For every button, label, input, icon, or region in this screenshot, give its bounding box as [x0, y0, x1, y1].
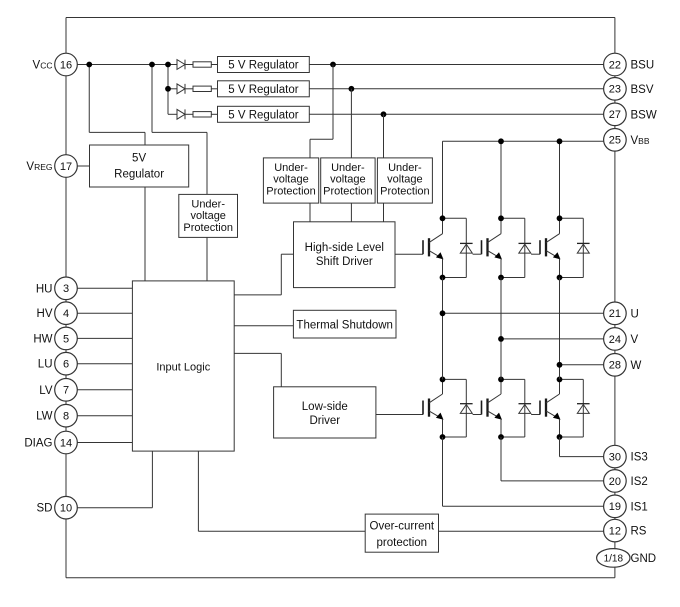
svg-text:Protection: Protection [323, 186, 373, 198]
svg-text:6: 6 [63, 359, 69, 371]
svg-text:IS2: IS2 [631, 476, 648, 488]
svg-text:Under-: Under- [191, 198, 225, 210]
svg-text:W: W [631, 360, 642, 372]
svg-text:Protection: Protection [380, 186, 430, 198]
svg-text:Over-current: Over-current [370, 521, 435, 533]
svg-text:Under-: Under- [331, 162, 365, 174]
svg-text:24: 24 [609, 334, 621, 346]
svg-text:10: 10 [60, 503, 72, 515]
svg-text:RS: RS [631, 526, 647, 538]
svg-text:17: 17 [60, 161, 72, 173]
svg-text:3: 3 [63, 283, 69, 295]
svg-text:5 V Regulator: 5 V Regulator [228, 110, 298, 122]
svg-text:20: 20 [609, 476, 621, 488]
svg-text:LW: LW [36, 411, 53, 423]
svg-text:5V: 5V [132, 153, 146, 165]
svg-text:22: 22 [609, 59, 621, 71]
svg-text:Input Logic: Input Logic [156, 361, 210, 373]
svg-text:BSV: BSV [631, 84, 654, 96]
svg-text:Driver: Driver [309, 415, 340, 427]
svg-text:IS3: IS3 [631, 452, 648, 464]
svg-text:5: 5 [63, 333, 69, 345]
svg-text:BSW: BSW [631, 109, 657, 121]
svg-text:5 V Regulator: 5 V Regulator [228, 84, 298, 96]
svg-text:28: 28 [609, 360, 621, 372]
svg-text:V: V [631, 334, 639, 346]
svg-text:HU: HU [36, 283, 53, 295]
svg-text:14: 14 [60, 437, 72, 449]
svg-text:25: 25 [609, 135, 621, 147]
svg-text:7: 7 [63, 385, 69, 397]
svg-text:21: 21 [609, 308, 621, 320]
svg-text:27: 27 [609, 109, 621, 121]
svg-text:HV: HV [37, 308, 53, 320]
svg-text:8: 8 [63, 411, 69, 423]
svg-text:VBB: VBB [631, 135, 650, 147]
svg-text:LU: LU [38, 359, 53, 371]
svg-text:LV: LV [39, 385, 53, 397]
svg-text:VCC: VCC [33, 60, 53, 72]
svg-text:23: 23 [609, 84, 621, 96]
svg-text:GND: GND [631, 553, 657, 565]
svg-text:U: U [631, 308, 639, 320]
svg-text:DIAG: DIAG [24, 438, 52, 450]
svg-text:30: 30 [609, 452, 621, 464]
svg-text:voltage: voltage [190, 210, 225, 222]
svg-text:VREG: VREG [26, 161, 52, 173]
svg-text:HW: HW [33, 333, 52, 345]
svg-text:12: 12 [609, 526, 621, 538]
svg-text:High-side Level: High-side Level [305, 242, 384, 254]
svg-text:1/18: 1/18 [604, 554, 624, 565]
svg-text:16: 16 [60, 59, 72, 71]
svg-text:protection: protection [377, 537, 428, 549]
svg-text:19: 19 [609, 501, 621, 513]
svg-text:Protection: Protection [266, 186, 316, 198]
svg-text:Protection: Protection [183, 222, 233, 234]
svg-text:Thermal Shutdown: Thermal Shutdown [296, 319, 393, 331]
svg-text:voltage: voltage [330, 174, 365, 186]
svg-text:SD: SD [37, 503, 53, 515]
svg-text:Low-side: Low-side [302, 401, 348, 413]
svg-text:Shift Driver: Shift Driver [316, 256, 373, 268]
svg-text:Regulator: Regulator [114, 169, 164, 181]
svg-text:voltage: voltage [387, 174, 422, 186]
svg-text:Under-: Under- [274, 162, 308, 174]
svg-text:5 V Regulator: 5 V Regulator [228, 60, 298, 72]
svg-text:4: 4 [63, 308, 69, 320]
svg-text:BSU: BSU [631, 60, 655, 72]
svg-text:Under-: Under- [388, 162, 422, 174]
svg-text:IS1: IS1 [631, 501, 648, 513]
svg-text:voltage: voltage [273, 174, 308, 186]
